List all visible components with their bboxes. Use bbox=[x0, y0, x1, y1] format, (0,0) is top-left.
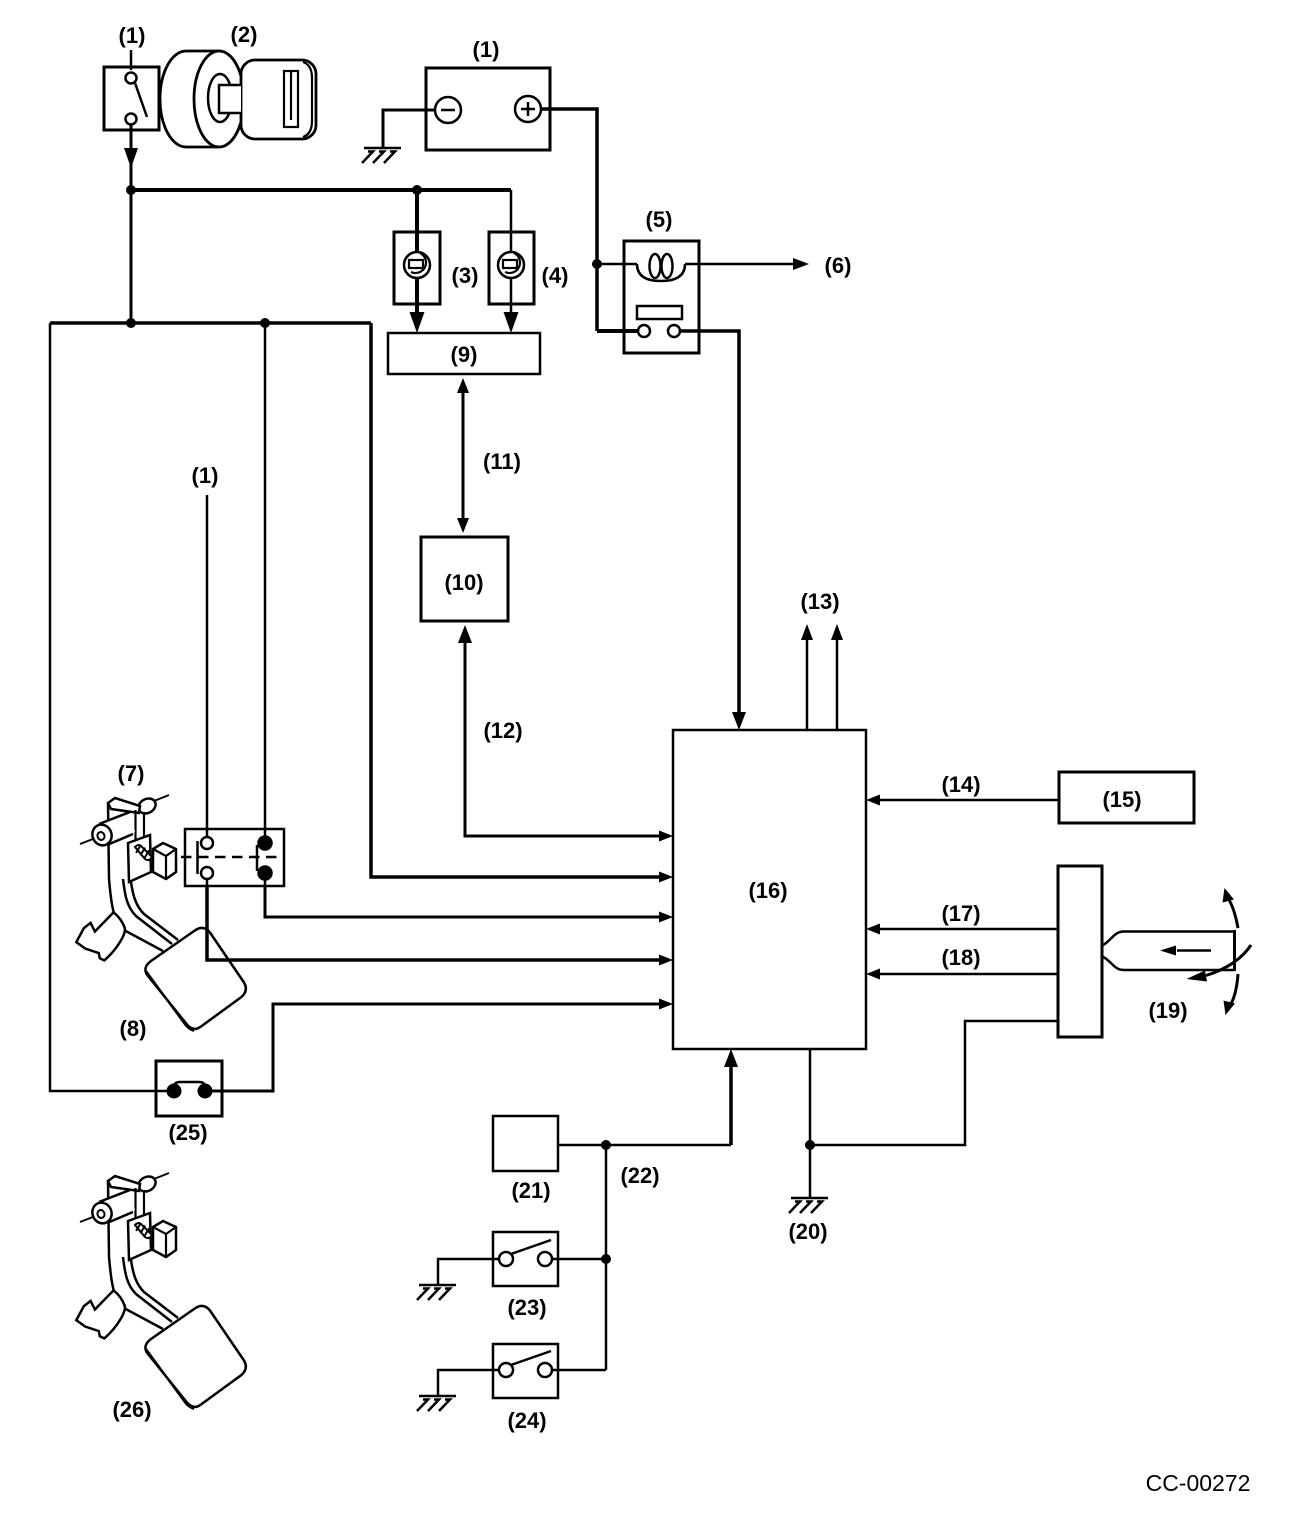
svg-text:(26): (26) bbox=[112, 1397, 151, 1422]
control module (16) bbox=[673, 730, 866, 1049]
wire (25) to (16) fifth input bbox=[212, 999, 673, 1092]
ignition switch (1) bbox=[104, 50, 159, 130]
svg-text:(17): (17) bbox=[941, 901, 980, 926]
wire ignition to bus bbox=[130, 124, 133, 190]
clutch pedal (26) bbox=[76, 1173, 246, 1409]
lever push arrow bbox=[1160, 946, 1176, 956]
arrow into (9) right bbox=[504, 312, 519, 333]
ground battery bbox=[362, 148, 401, 163]
svg-text:(16): (16) bbox=[748, 878, 787, 903]
switch (24) bbox=[493, 1344, 558, 1398]
wire left rail bbox=[50, 323, 167, 1091]
wire bus y190 bbox=[131, 188, 511, 192]
svg-text:(23): (23) bbox=[507, 1295, 546, 1320]
wire battery positive to relay bbox=[541, 109, 597, 331]
ground sw24 bbox=[417, 1396, 456, 1411]
svg-text:(6): (6) bbox=[825, 253, 852, 278]
battery (1) bbox=[426, 68, 550, 150]
relay (5) bbox=[597, 241, 699, 353]
lever arc down bbox=[1224, 974, 1239, 1015]
key cylinder (2) bbox=[160, 51, 316, 147]
svg-text:(7): (7) bbox=[118, 761, 145, 786]
svg-text:(24): (24) bbox=[507, 1408, 546, 1433]
stop light switch assembly bbox=[181, 829, 284, 886]
svg-text:(20): (20) bbox=[788, 1219, 827, 1244]
wire stop switch to (16) fourth input bbox=[207, 886, 673, 966]
ground sw23 bbox=[417, 1285, 456, 1300]
wire (1) stub to stop switch bbox=[206, 495, 209, 831]
lever swoosh arrow bbox=[1187, 945, 1252, 982]
wire stop switch to (16) third input bbox=[265, 886, 673, 923]
junction dot relay coil bbox=[592, 259, 602, 269]
svg-text:(5): (5) bbox=[646, 207, 673, 232]
svg-text:(22): (22) bbox=[620, 1163, 659, 1188]
wire to (16) second input bbox=[371, 323, 673, 883]
junction dot bbox=[126, 185, 136, 195]
wire sw23 right bbox=[552, 1258, 606, 1261]
svg-text:(1): (1) bbox=[473, 37, 500, 62]
junction dot bbox=[126, 318, 136, 328]
clutch switch connector (25) bbox=[156, 1061, 222, 1116]
combination meter (9) bbox=[388, 333, 540, 374]
arrow into (9) left bbox=[410, 312, 425, 333]
wire lamp4 feed bbox=[510, 190, 513, 315]
wire stop switch feed bbox=[264, 323, 267, 831]
svg-text:(1): (1) bbox=[119, 23, 146, 48]
wire bus y323 bbox=[50, 321, 371, 325]
command switch body bbox=[1058, 866, 1102, 1037]
junction dot bbox=[260, 318, 270, 328]
junction dot bbox=[412, 185, 422, 195]
svg-text:(13): (13) bbox=[800, 589, 839, 614]
svg-text:(14): (14) bbox=[941, 772, 980, 797]
lever arc up bbox=[1223, 888, 1239, 928]
svg-text:(21): (21) bbox=[511, 1178, 550, 1203]
sensor (15) bbox=[1059, 772, 1194, 823]
indicator lamp (4) bbox=[489, 232, 534, 304]
indicator lamp (3) bbox=[394, 232, 440, 304]
wire (11) bidirectional bbox=[457, 378, 469, 533]
switch (23) bbox=[493, 1232, 558, 1286]
wire sw24 right bbox=[552, 1369, 606, 1372]
ground (20) bbox=[789, 1198, 828, 1213]
wire relay coil output (6) bbox=[685, 263, 795, 266]
wire command switch to junction bbox=[810, 1021, 1058, 1145]
command lever (19) bbox=[1103, 930, 1235, 971]
output arrows (13) bbox=[801, 624, 843, 730]
arrow (6) bbox=[793, 258, 809, 270]
svg-text:(12): (12) bbox=[483, 718, 522, 743]
unit (10) bbox=[421, 537, 508, 621]
wire (12) from (16) to (10) bbox=[458, 625, 673, 842]
svg-text:(4): (4) bbox=[542, 263, 569, 288]
svg-text:(9): (9) bbox=[451, 342, 478, 367]
wire battery negative bbox=[383, 110, 435, 147]
svg-text:(8): (8) bbox=[120, 1016, 147, 1041]
svg-text:(1): (1) bbox=[192, 463, 219, 488]
wire (22) to (16) bbox=[558, 1049, 738, 1145]
wire (16) to ground (20) bbox=[809, 1049, 812, 1197]
junction dot bbox=[601, 1140, 611, 1150]
svg-text:(11): (11) bbox=[483, 449, 521, 474]
wire (18) bbox=[866, 969, 1058, 980]
wire x131 bbox=[130, 190, 133, 323]
svg-text:(3): (3) bbox=[452, 263, 479, 288]
wire lamp3 feed bbox=[415, 190, 419, 315]
wire relay contact to (16) bbox=[597, 331, 746, 730]
unit (21) bbox=[493, 1116, 558, 1171]
wire sw23 left to ground bbox=[438, 1259, 499, 1284]
wire (14) bbox=[866, 795, 1059, 806]
wire switch bus x606 bbox=[605, 1145, 608, 1370]
svg-text:(15): (15) bbox=[1102, 787, 1141, 812]
svg-text:(19): (19) bbox=[1148, 998, 1187, 1023]
arrow down mid-wire bbox=[124, 148, 138, 168]
svg-text:(2): (2) bbox=[231, 22, 258, 47]
svg-text:(25): (25) bbox=[168, 1120, 207, 1145]
brake pedal (7) bbox=[76, 795, 246, 1031]
junction dot bbox=[601, 1254, 611, 1264]
wire (17) bbox=[866, 924, 1058, 935]
junction dot bbox=[805, 1140, 815, 1150]
wire sw24 left to ground bbox=[438, 1370, 499, 1395]
svg-text:(10): (10) bbox=[444, 570, 483, 595]
svg-text:CC-00272: CC-00272 bbox=[1146, 1470, 1251, 1496]
svg-text:(18): (18) bbox=[941, 945, 980, 970]
